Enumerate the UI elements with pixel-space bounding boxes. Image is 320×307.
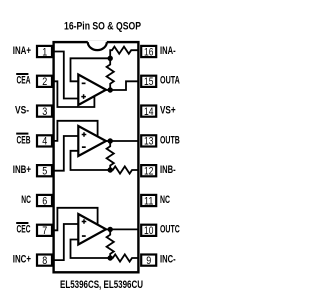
svg-text:13: 13 bbox=[144, 136, 153, 148]
op-amp U1 A triangle bbox=[78, 75, 106, 106]
svg-text:4: 4 bbox=[42, 136, 47, 148]
resistor RgA (node1 down to output A) bbox=[107, 58, 114, 90]
svg-text:15: 15 bbox=[144, 76, 153, 88]
svg-text:7: 7 bbox=[42, 225, 47, 237]
node B out junction dot bbox=[108, 138, 113, 143]
pin 8 box bbox=[37, 255, 52, 266]
node B2 junction dot bbox=[108, 167, 113, 172]
pin 15 box bbox=[141, 76, 156, 87]
svg-text:VS+: VS+ bbox=[160, 105, 176, 117]
pin 14 box bbox=[141, 106, 156, 117]
svg-text:2: 2 bbox=[42, 76, 47, 88]
wire pin1 INA+ to op-amp A + input bbox=[53, 52, 78, 99]
op-amp B minus sign bbox=[82, 146, 86, 148]
svg-text:5: 5 bbox=[42, 166, 47, 178]
resistor RgB (output B down to node2) bbox=[107, 141, 114, 170]
svg-text:EL5396CS, EL5396CU: EL5396CS, EL5396CU bbox=[60, 279, 143, 291]
svg-text:14: 14 bbox=[144, 106, 153, 118]
pin 1 box bbox=[37, 46, 52, 57]
wire output A to pin15 OUTA (jog up) bbox=[106, 81, 139, 90]
op-amp B plus sign bbox=[82, 132, 87, 137]
svg-text:INB-: INB- bbox=[160, 164, 176, 176]
svg-text:1: 1 bbox=[42, 46, 47, 58]
svg-text:INB+: INB+ bbox=[13, 164, 31, 176]
svg-text:16-Pin SO & QSOP: 16-Pin SO & QSOP bbox=[64, 21, 141, 33]
pin 4 box bbox=[37, 135, 52, 146]
pin 16 box bbox=[141, 46, 156, 57]
svg-text:9: 9 bbox=[146, 255, 151, 267]
svg-text:10: 10 bbox=[144, 225, 153, 237]
svg-text:CEA: CEA bbox=[17, 75, 31, 87]
wire output C to pin10 OUTC bbox=[106, 228, 139, 230]
resistor RfA (node1 to pin16 INA-) bbox=[110, 47, 139, 59]
pin 10 box bbox=[141, 225, 156, 236]
svg-text:11: 11 bbox=[144, 195, 153, 207]
pin-1 notch (half circle in top edge) bbox=[88, 41, 107, 50]
pin 12 box bbox=[141, 165, 156, 176]
wire pin5 INB+ to op-amp B + input (up) bbox=[53, 136, 78, 171]
op-amp U2 B triangle bbox=[78, 126, 106, 156]
pin 11 box bbox=[141, 195, 156, 206]
op-amp A plus sign bbox=[81, 94, 86, 99]
svg-text:CEC: CEC bbox=[17, 224, 31, 236]
wire output B to pin13 OUTB bbox=[106, 140, 139, 142]
pin 9 box bbox=[141, 255, 156, 266]
node C2 junction dot bbox=[108, 255, 113, 260]
node A2 (output) junction dot bbox=[108, 87, 113, 92]
IC package body outline bbox=[54, 42, 139, 272]
svg-text:12: 12 bbox=[144, 166, 153, 178]
svg-text:INC+: INC+ bbox=[13, 254, 31, 266]
resistor RfC (node3 to pin9 INC-) bbox=[110, 254, 139, 261]
svg-text:NC: NC bbox=[160, 194, 170, 206]
svg-text:OUTC: OUTC bbox=[160, 224, 180, 236]
wire node3 to op-amp C - input bbox=[71, 240, 111, 259]
resistor RfB (node2 to pin12 INB-) bbox=[110, 166, 139, 173]
wire pin2 CEA to op-amp A enable (bottom edge) bbox=[53, 81, 94, 107]
svg-text:VS-: VS- bbox=[15, 105, 29, 117]
pin 5 box bbox=[37, 165, 52, 176]
op-amp C plus sign bbox=[82, 219, 87, 224]
svg-text:INA+: INA+ bbox=[13, 45, 31, 57]
pin 3 box bbox=[37, 106, 52, 117]
node A1 junction dot bbox=[108, 56, 113, 61]
pin 13 box bbox=[141, 135, 156, 146]
svg-text:8: 8 bbox=[42, 255, 47, 267]
svg-text:CEB: CEB bbox=[17, 134, 31, 146]
wire pin4 CEB to op-amp B enable (top edge) bbox=[53, 121, 98, 141]
wire pin8 INC+ to op-amp C + input (up) bbox=[53, 224, 78, 260]
resistor RgC (output C down to node3) bbox=[107, 229, 114, 258]
wire node2 to op-amp B - input bbox=[71, 151, 111, 170]
op-amp U3 C triangle bbox=[78, 214, 106, 245]
svg-text:16: 16 bbox=[144, 46, 153, 58]
pin 7 box bbox=[37, 225, 52, 236]
svg-text:3: 3 bbox=[42, 106, 47, 118]
svg-text:INA-: INA- bbox=[160, 45, 176, 57]
wire pin7 CEC to op-amp C enable (top edge) bbox=[53, 208, 98, 231]
op-amp A minus sign bbox=[82, 83, 86, 85]
pin 6 box bbox=[37, 195, 52, 206]
wire node1 to op-amp A - input bbox=[71, 58, 111, 81]
svg-text:6: 6 bbox=[42, 195, 47, 207]
pin 2 box bbox=[37, 76, 52, 87]
svg-text:NC: NC bbox=[21, 194, 31, 206]
op-amp C minus sign bbox=[82, 235, 86, 237]
svg-text:OUTB: OUTB bbox=[160, 134, 180, 146]
svg-text:OUTA: OUTA bbox=[160, 75, 180, 87]
svg-text:INC-: INC- bbox=[160, 254, 176, 266]
node C out junction dot bbox=[108, 227, 113, 232]
